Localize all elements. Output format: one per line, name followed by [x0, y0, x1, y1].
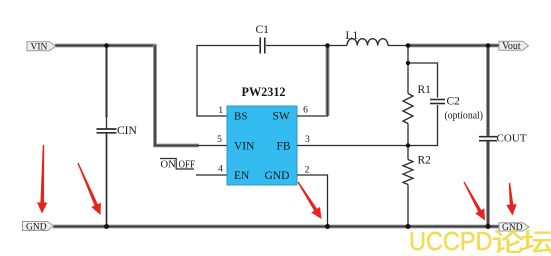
node Vout: output tag: [499, 41, 529, 52]
node: junction R2 ground: [406, 224, 411, 229]
capacitor CIN: [97, 129, 117, 133]
wire: L1 to R1 node: [388, 45, 408, 47]
svg-text:UCCPD: UCCPD: [409, 226, 493, 256]
op-amp U1: PW2312 regulator body: [227, 106, 297, 185]
resistor R2: [403, 160, 413, 185]
wire: CIN branch upper segment: [105, 46, 108, 118]
red arrow 1 (left, to GND rail): [37, 145, 47, 214]
wire: C2 top branch: [408, 63, 438, 98]
svg-text:2: 2: [305, 166, 310, 176]
wire: R2 bottom lead to ground rail: [407, 185, 409, 227]
wire: R1 top lead: [407, 46, 409, 94]
red arrow 2 (to CIN ground junction): [77, 163, 101, 215]
wire: VIN top horizontal thick: [55, 44, 156, 48]
inductor L1: [347, 39, 388, 46]
ground: GND tag left: [23, 222, 54, 233]
wire: thin loop from pin1 up to C1 (BS bootstrap): [197, 46, 259, 117]
svg-text:Vout: Vout: [502, 41, 521, 52]
wire: VIN vertical drop to pin5 level, thick: [155, 44, 199, 146]
svg-text:GND: GND: [265, 170, 290, 182]
node: junction COUT ground: [486, 224, 491, 229]
node: ON/OFF step symbol: [160, 159, 195, 171]
node: junction FB divider: [406, 143, 410, 147]
wire: output node to Vout thick: [407, 44, 500, 48]
svg-text:L1: L1: [346, 30, 359, 42]
svg-text:C2: C2: [447, 96, 461, 108]
svg-text:SW: SW: [273, 111, 290, 123]
svg-text:5: 5: [217, 135, 222, 145]
svg-text:PW2312: PW2312: [242, 85, 286, 99]
wire: SW vertical riser thick: [326, 46, 330, 117]
wire: GND pin2 stub and drop to rail: [297, 175, 328, 227]
wire: C1 right plate to SW node: [266, 45, 328, 47]
svg-text:R2: R2: [418, 155, 432, 167]
svg-text:EN: EN: [234, 170, 250, 182]
red arrow 3 (to pin2 ground junction): [297, 182, 321, 219]
node: junction pin2 ground: [325, 224, 330, 229]
wire: FB pin3 to divider node: [297, 145, 408, 147]
watermark hanzi lun: [493, 230, 524, 253]
node VIN: input tag: [27, 42, 56, 53]
svg-text:1: 1: [218, 106, 223, 116]
node: junction SW top: [325, 43, 330, 48]
svg-text:C1: C1: [256, 24, 270, 36]
watermark hanzi tan: [522, 230, 551, 253]
wire: CIN bottom lead to ground rail: [106, 134, 108, 227]
red arrow 4 (to COUT ground junction): [463, 182, 485, 221]
wire: R1 bottom lead to FB node: [407, 124, 409, 146]
wire: COUT vertical upper thick: [486, 44, 490, 136]
wire: COUT vertical lower thick: [486, 142, 490, 229]
resistor R1: [403, 94, 413, 124]
node: junction Vout/COUT: [486, 43, 491, 48]
svg-text:(optional): (optional): [445, 110, 484, 122]
wire: R2 top lead: [407, 146, 409, 160]
wire: pin5 thin lead into chip: [198, 145, 227, 147]
wire: C2 bottom branch: [408, 105, 438, 146]
wire: CIN lead to top plate: [106, 116, 108, 129]
svg-text:FB: FB: [277, 141, 291, 153]
svg-text:VIN: VIN: [234, 141, 255, 153]
wire: SW node to L1: [328, 45, 348, 47]
node: junction R1/C2 top: [406, 61, 410, 65]
svg-text:CIN: CIN: [117, 125, 138, 137]
ground: GND tag right: [499, 223, 529, 233]
wire: SW pin6 stub: [297, 115, 328, 117]
svg-text:4: 4: [218, 165, 223, 175]
node: junction CIN ground: [104, 224, 109, 229]
node: junction output/R1: [406, 43, 411, 48]
capacitor COUT: [479, 137, 497, 141]
red arrow 5 (to GND tag right): [506, 183, 516, 216]
svg-text:ON: ON: [161, 160, 177, 171]
svg-text:OFF: OFF: [179, 160, 196, 171]
svg-text:COUT: COUT: [497, 133, 527, 145]
svg-text:3: 3: [305, 135, 310, 145]
capacitor C1: [260, 38, 265, 54]
svg-text:VIN: VIN: [31, 43, 48, 53]
svg-text:R1: R1: [418, 84, 432, 96]
svg-text:GND: GND: [26, 222, 47, 232]
svg-text:6: 6: [303, 106, 308, 116]
wire: EN pin4 stub: [196, 174, 227, 176]
wire: bottom ground rail thick: [53, 225, 502, 229]
node: junction VIN/CIN: [104, 43, 109, 48]
capacitor C2: [430, 100, 445, 104]
svg-text:BS: BS: [234, 111, 247, 123]
